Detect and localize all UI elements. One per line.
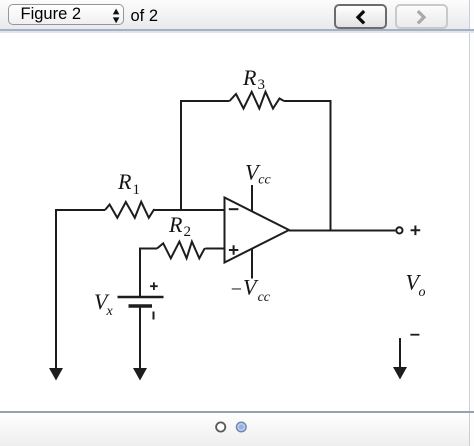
label battery plus <box>150 282 158 290</box>
svg-text:x: x <box>106 304 114 319</box>
label op-amp plus <box>229 245 238 254</box>
pagination dots <box>210 417 270 437</box>
wire: feedback top left segment <box>181 100 230 102</box>
label op-amp minus <box>229 208 239 210</box>
svg-text:R: R <box>242 65 257 90</box>
wire: battery to ground <box>139 307 141 369</box>
wire: output <box>289 230 395 232</box>
next button (disabled) <box>395 4 448 29</box>
figure dropdown <box>8 4 124 25</box>
page dot 1 (unselected) <box>216 422 225 431</box>
battery Vx bottom plate <box>129 304 153 307</box>
resistor R3 <box>230 92 285 109</box>
wire: output reference arrow stem <box>399 338 401 368</box>
wire: R2 down to battery <box>139 248 141 297</box>
ground arrow right (output) <box>393 367 407 380</box>
label output plus <box>411 226 421 236</box>
wire: feedback top right segment <box>284 100 331 102</box>
resistor R1 <box>105 202 155 218</box>
label output minus <box>410 334 419 336</box>
toolbar bar <box>0 0 469 29</box>
wire: Vcc lead <box>251 185 253 212</box>
op-amp U1 triangle <box>225 198 290 263</box>
wire: R2 left segment <box>140 248 157 250</box>
wire: left branch vertical to ground <box>55 209 57 369</box>
ground arrow middle <box>133 368 147 381</box>
wire: inverting input left segment <box>56 209 105 211</box>
right edge strip <box>470 0 474 446</box>
footer separator <box>0 411 474 413</box>
svg-text:R: R <box>117 169 132 194</box>
page dot 2 (selected) <box>237 422 247 432</box>
svg-text:V: V <box>243 275 259 300</box>
svg-text:o: o <box>419 285 426 300</box>
svg-text:3: 3 <box>258 77 266 93</box>
wire: inverting input right segment <box>154 209 225 211</box>
wire: -Vcc lead <box>251 249 253 279</box>
footer bar <box>0 413 474 446</box>
resistor R2 <box>157 242 206 259</box>
node: output terminal circle <box>396 227 402 233</box>
svg-text:1: 1 <box>133 182 141 198</box>
prev button (enabled) <box>334 4 387 29</box>
svg-text:R: R <box>168 212 183 237</box>
ground arrow left <box>49 368 63 381</box>
right edge border line <box>469 0 470 446</box>
battery polarity tick <box>153 312 155 320</box>
battery Vx top plate <box>118 296 164 299</box>
svg-text:2: 2 <box>184 224 192 240</box>
wire: feedback left vertical <box>180 100 182 210</box>
svg-text:−: − <box>231 278 242 300</box>
svg-text:cc: cc <box>258 173 271 188</box>
wire: R2 right segment to noninverting input <box>206 248 226 250</box>
wire: feedback right vertical <box>330 100 332 231</box>
svg-text:cc: cc <box>258 290 271 305</box>
